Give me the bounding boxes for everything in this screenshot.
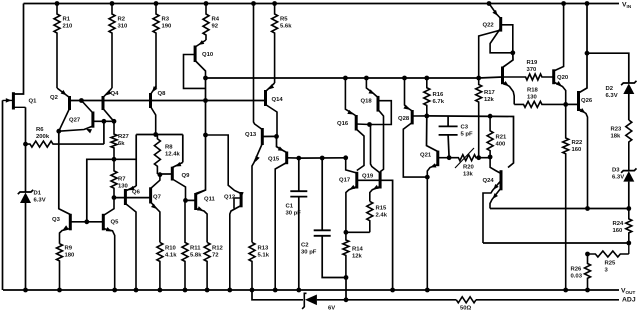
emitter arrow 2 Q24 xyxy=(493,193,498,199)
resistor 50 ohm value label xyxy=(460,306,472,312)
transistor Q27 xyxy=(59,101,93,134)
zener diode 6V on ADJ line xyxy=(302,293,335,311)
capacitor C1 30pF xyxy=(286,191,308,216)
wire VIN down to Q26 xyxy=(579,4,588,94)
resistor R21 xyxy=(487,116,507,157)
svg-text:R3: R3 xyxy=(162,17,170,23)
wire Q3 Q5 common base xyxy=(70,221,103,223)
svg-text:D3: D3 xyxy=(612,168,620,174)
resistor 50 ohm zigzag xyxy=(456,297,476,303)
wire Q17 Q19 base line xyxy=(357,180,393,290)
node Q28 emitter on bus xyxy=(402,76,407,81)
node Q22 emitter on VIN rail xyxy=(487,1,492,6)
node R4 top on VIN rail xyxy=(204,1,209,6)
wire D1 top lead xyxy=(25,144,27,192)
svg-text:13k: 13k xyxy=(463,171,474,177)
resistor R6 value label xyxy=(36,127,50,140)
resistor R18 zigzag xyxy=(514,101,566,107)
node Q4 collector / R27 top junction xyxy=(112,119,117,124)
svg-text:18k: 18k xyxy=(611,133,622,139)
resistor R9 xyxy=(57,244,76,290)
wire Q1 gate to bottom rail xyxy=(2,100,4,290)
svg-text:R18: R18 xyxy=(527,88,539,94)
node R9 bottom on rail xyxy=(57,288,62,293)
svg-text:130: 130 xyxy=(527,94,538,100)
wire down to ADJ line xyxy=(345,278,347,300)
svg-text:Q15: Q15 xyxy=(268,157,280,163)
wire Q11 base xyxy=(186,199,196,201)
transistor Q16 xyxy=(337,78,370,171)
transistor Q17 xyxy=(339,158,357,233)
wire Q24 upper emitter line xyxy=(483,242,629,244)
wire Q2 collector node down to Q3 xyxy=(59,131,71,214)
svg-text:Q4: Q4 xyxy=(111,91,120,97)
node D3 / R24 junction xyxy=(626,206,631,211)
wire top supply rail xyxy=(24,3,620,5)
node Q20 emitter / R18 / Q26 base junction xyxy=(563,102,568,107)
svg-text:C1: C1 xyxy=(286,204,294,210)
svg-text:ADJ: ADJ xyxy=(622,297,636,304)
node Q16 base / Q19 collector junction xyxy=(367,122,372,127)
svg-text:Q18: Q18 xyxy=(361,99,373,105)
node R6 top junction xyxy=(102,119,107,124)
svg-text:R22: R22 xyxy=(572,140,584,146)
svg-text:4.1k: 4.1k xyxy=(165,252,177,258)
wire box right to Q9 emitter xyxy=(182,135,184,163)
wire current mirror bus xyxy=(206,77,479,79)
resistor R5 xyxy=(272,4,293,84)
transistor Q5 xyxy=(103,198,119,290)
node Q17 emitter / R15 / R14 junction xyxy=(344,230,349,235)
emitter arrow 1 Q24 xyxy=(493,184,498,190)
svg-text:130: 130 xyxy=(118,183,129,189)
svg-text:Q12: Q12 xyxy=(224,195,236,201)
svg-text:D1: D1 xyxy=(34,191,42,197)
node R10 bottom on rail xyxy=(158,288,163,293)
wire R8 bottom to Q9 base xyxy=(157,173,172,175)
svg-text:R5: R5 xyxy=(280,17,288,23)
wire compensation node line xyxy=(299,157,346,159)
node R17 top on bus end xyxy=(476,76,481,81)
wire R6 right to Q4 collector node xyxy=(103,121,105,144)
svg-text:50Ω: 50Ω xyxy=(460,306,472,312)
node Q21 emitter on rail xyxy=(425,288,430,293)
wire Q13 base to node xyxy=(262,135,276,137)
wire D2 branch over and down xyxy=(587,53,629,83)
resistor R20 zigzag xyxy=(449,155,490,161)
svg-text:6k: 6k xyxy=(118,141,125,147)
svg-text:R13: R13 xyxy=(258,246,270,252)
transistor Q7 xyxy=(151,175,162,243)
node R25 left junction xyxy=(585,252,590,257)
svg-text:R17: R17 xyxy=(484,90,496,96)
wire Q10 collector column to Q11 xyxy=(196,78,206,194)
svg-text:Q26: Q26 xyxy=(581,98,593,104)
svg-text:12.4k: 12.4k xyxy=(165,151,180,157)
svg-text:R12: R12 xyxy=(212,246,224,252)
wire bottom output rail xyxy=(3,289,619,291)
svg-text:6V: 6V xyxy=(328,306,335,312)
svg-text:160: 160 xyxy=(613,228,624,234)
wire Q1 source down xyxy=(25,107,27,144)
svg-text:160: 160 xyxy=(572,147,583,153)
resistor R1 xyxy=(54,4,73,89)
node Q26 collector on VIN rail xyxy=(585,1,590,6)
transistor Q4 xyxy=(103,88,119,121)
svg-text:R9: R9 xyxy=(65,246,73,252)
wire common base rail of PNP row xyxy=(70,100,266,102)
node D1 anode on bottom rail xyxy=(23,288,28,293)
svg-text:190: 190 xyxy=(162,23,173,29)
node Q20 collector on VIN rail xyxy=(561,1,566,6)
node Q27 collector on base rail xyxy=(79,98,84,103)
svg-text:Q6: Q6 xyxy=(132,190,141,196)
resistor R6 zigzag xyxy=(26,141,104,147)
wire box left to Q6 emitter xyxy=(135,135,137,187)
resistor R10 xyxy=(157,242,177,290)
wire C2 top lead xyxy=(321,158,323,230)
wire ADJ line middle segment xyxy=(317,299,456,301)
resistor R24 xyxy=(613,209,632,244)
resistor R25 right riser xyxy=(605,243,629,273)
svg-text:Q27: Q27 xyxy=(69,118,81,124)
svg-text:2.4k: 2.4k xyxy=(376,212,388,218)
node C3 bottom / R20 left junction xyxy=(447,155,452,160)
node R27/R7 junction xyxy=(112,157,117,162)
svg-text:Q7: Q7 xyxy=(153,195,162,201)
svg-text:310: 310 xyxy=(118,23,129,29)
node R7 bottom / Q5 collector junction xyxy=(112,195,117,200)
svg-text:180: 180 xyxy=(65,252,76,258)
node Q7 collector junction xyxy=(158,172,163,177)
node Q15 base / C1 junction xyxy=(296,156,301,161)
svg-text:Q14: Q14 xyxy=(272,97,284,103)
node R21 bottom / R20 right junction xyxy=(488,155,493,160)
node Q18 emitter on bus xyxy=(364,76,369,81)
transistor Q10 xyxy=(184,40,214,88)
resistor R4 xyxy=(203,4,220,41)
zener diode D2 6.3V xyxy=(606,81,637,99)
wire R27 junction left to Q3 Q5 bases xyxy=(87,159,136,222)
node Q1 source / R6 / D1 junction xyxy=(23,142,28,147)
transistor Q23 xyxy=(503,67,515,105)
resistor R26 xyxy=(585,254,591,290)
svg-text:Q9: Q9 xyxy=(182,173,191,179)
wire R15 bottom to R14 node xyxy=(346,231,370,233)
node R16 top on bus xyxy=(424,76,429,81)
node R26 bottom on VOUT rail xyxy=(585,288,590,293)
transistor Q2 xyxy=(50,88,70,131)
svg-text:R11: R11 xyxy=(190,246,201,252)
svg-text:5.1k: 5.1k xyxy=(258,252,270,258)
node R2 top on VIN rail xyxy=(110,1,115,6)
resistor R13 xyxy=(249,242,270,290)
capacitor C2 30pF xyxy=(301,230,331,255)
node C2 / R14 junction xyxy=(344,275,349,280)
svg-text:6.3V: 6.3V xyxy=(606,93,618,99)
node Q14 collector / Q13 base / Q15 emitter junction xyxy=(274,134,279,139)
svg-text:R15: R15 xyxy=(376,206,388,212)
wire Q24 lower emitter line xyxy=(490,208,629,210)
svg-text:72: 72 xyxy=(212,252,219,258)
svg-text:6.3V: 6.3V xyxy=(34,197,46,203)
node C1 bottom on rail xyxy=(296,288,301,293)
resistor R22 xyxy=(563,104,583,290)
zener diode D1 6.3V xyxy=(18,190,46,204)
node Q8 collector on box top xyxy=(153,132,158,137)
transistor Q22 xyxy=(479,4,513,79)
node R3 top on VIN rail xyxy=(154,1,159,6)
transistor Q12 xyxy=(206,135,244,290)
resistor R2 xyxy=(109,4,128,89)
svg-text:210: 210 xyxy=(63,23,74,29)
capacitor C3 5pF xyxy=(439,125,473,138)
svg-text:R27: R27 xyxy=(118,134,130,140)
resistor R26 value label xyxy=(571,267,583,280)
node Q28 collector to Q21 emitter junction xyxy=(425,175,430,180)
node on ADJ line xyxy=(344,297,349,302)
svg-text:12k: 12k xyxy=(352,253,363,259)
svg-text:R19: R19 xyxy=(527,60,539,66)
node base sense on rail xyxy=(390,288,395,293)
node R16 bottom / Q28 base junction xyxy=(424,114,429,119)
node ADJ label xyxy=(622,297,636,304)
svg-text:R4: R4 xyxy=(212,17,220,23)
node R24 bottom junction xyxy=(626,241,631,246)
node Q6 collector on rail xyxy=(134,288,139,293)
node mirror to Q12 emitter junction xyxy=(203,133,208,138)
transistor Q18 xyxy=(361,78,392,172)
node Q2 collector / Q3 collector junction xyxy=(56,129,61,134)
resistor R8 xyxy=(154,135,180,175)
node VIN label xyxy=(622,2,632,10)
svg-text:R1: R1 xyxy=(63,17,71,23)
svg-text:R6: R6 xyxy=(36,127,44,133)
wire Q27 base to R27 node xyxy=(93,120,114,122)
wire ADJ line right segment xyxy=(476,299,619,301)
transistor Q15 xyxy=(268,152,299,291)
transistor Q21 xyxy=(420,151,449,290)
resistor R19 zigzag xyxy=(503,74,554,80)
resistor R16 xyxy=(424,78,445,116)
wire C1 top lead xyxy=(298,158,300,191)
node Q3 Q5 base junction xyxy=(84,219,89,224)
node Q22 collector-base tie junction xyxy=(510,50,515,55)
svg-text:Q13: Q13 xyxy=(245,132,257,138)
wire C2 bottom lead xyxy=(322,236,346,278)
transistor Q20 xyxy=(554,4,569,105)
svg-text:R24: R24 xyxy=(613,221,625,227)
wire C1 bottom lead xyxy=(298,197,300,290)
node R1 top on VIN rail xyxy=(55,1,60,6)
svg-text:R23: R23 xyxy=(611,127,623,133)
resistor R7 xyxy=(111,159,129,197)
wire VIN to Q1 drain xyxy=(13,4,23,95)
transistor Q1 xyxy=(3,92,38,109)
wire node to C3 and Q24 collector xyxy=(427,116,514,168)
transistor Q26 xyxy=(579,91,593,209)
svg-text:92: 92 xyxy=(212,23,219,29)
transistor Q8 xyxy=(151,86,167,135)
svg-text:Q19: Q19 xyxy=(362,174,374,180)
resistor R25 zigzag xyxy=(588,251,629,257)
node R13 bottom on rail xyxy=(250,288,255,293)
svg-text:D2: D2 xyxy=(606,86,614,92)
node C2 top junction xyxy=(320,156,325,161)
wire tie down to Q23 collector xyxy=(503,53,514,68)
transistor Q13 xyxy=(245,4,262,243)
zener diode D3 6.3V xyxy=(612,168,637,182)
svg-text:6.3V: 6.3V xyxy=(612,174,624,180)
svg-text:C2: C2 xyxy=(301,243,309,249)
svg-text:Q20: Q20 xyxy=(557,75,569,81)
svg-text:Q5: Q5 xyxy=(111,220,120,226)
svg-text:R20: R20 xyxy=(463,165,475,171)
node Q5 emitter on rail xyxy=(112,288,117,293)
svg-text:R25: R25 xyxy=(605,261,617,267)
resistor R11 xyxy=(182,200,202,290)
node Q12 collector on rail xyxy=(227,288,232,293)
wire Q21 base from node xyxy=(427,116,438,152)
resistor R23 xyxy=(611,120,632,171)
svg-text:Q17: Q17 xyxy=(339,178,351,184)
node Q17 collector junction xyxy=(343,155,348,160)
svg-text:12k: 12k xyxy=(484,97,495,103)
resistor R27 xyxy=(111,121,130,159)
svg-text:R8: R8 xyxy=(165,145,173,151)
node R5 top on VIN rail xyxy=(272,1,277,6)
resistor R17 xyxy=(476,78,496,158)
svg-text:R14: R14 xyxy=(352,247,364,253)
svg-text:Q11: Q11 xyxy=(204,197,216,203)
node R11 bottom on rail xyxy=(183,288,188,293)
wire D1 to bottom rail xyxy=(25,203,27,290)
svg-text:Q22: Q22 xyxy=(483,23,495,29)
resistor R19 value label xyxy=(527,60,539,73)
svg-text:200k: 200k xyxy=(36,134,50,140)
svg-text:Q1: Q1 xyxy=(29,99,38,105)
node R21 top junction xyxy=(488,114,493,119)
node R12 bottom on rail xyxy=(205,288,210,293)
wire C3 bottom lead xyxy=(448,135,449,158)
svg-text:0.03: 0.03 xyxy=(571,273,583,279)
resistor R18 value label xyxy=(527,88,539,101)
node Q13 collector on VIN rail xyxy=(251,1,256,6)
svg-text:Q10: Q10 xyxy=(202,52,214,58)
svg-text:R10: R10 xyxy=(165,246,177,252)
transistor Q6 xyxy=(125,186,140,290)
svg-text:Q21: Q21 xyxy=(420,153,432,159)
resistor R20 trim slash xyxy=(455,148,475,177)
svg-text:R16: R16 xyxy=(433,92,445,98)
svg-text:Q3: Q3 xyxy=(52,217,61,223)
node D2 branch junction xyxy=(585,51,590,56)
emitter arrow Q15 xyxy=(278,146,284,151)
wire Q6 Q7 base line xyxy=(114,197,151,199)
node Q9 collector / Q11 base / R11 junction xyxy=(183,198,188,203)
transistor Q9 xyxy=(172,162,190,200)
svg-text:5.8k: 5.8k xyxy=(190,252,202,258)
node VOUT label xyxy=(621,288,635,296)
wire node down to Q15 emitter xyxy=(277,136,287,152)
svg-text:Q2: Q2 xyxy=(50,95,59,101)
svg-text:30 pF: 30 pF xyxy=(301,249,317,255)
transistor Q14 xyxy=(266,83,284,136)
svg-text:370: 370 xyxy=(527,67,538,73)
svg-text:Q8: Q8 xyxy=(158,91,167,97)
svg-text:Q24: Q24 xyxy=(483,178,495,184)
svg-text:R21: R21 xyxy=(496,135,508,141)
transistor Q28 xyxy=(398,78,427,177)
node R22 bottom on rail xyxy=(563,288,568,293)
svg-text:5.6k: 5.6k xyxy=(280,23,292,29)
svg-text:Q28: Q28 xyxy=(398,116,410,122)
resistor R15 xyxy=(367,201,388,232)
node R17 bottom junction xyxy=(476,155,481,160)
svg-text:6.7k: 6.7k xyxy=(433,99,445,105)
wire R8 box top xyxy=(136,134,183,136)
wire D2 to R23 xyxy=(628,94,630,120)
wire Q26 base lead xyxy=(566,103,579,105)
wire D3 to R24 node xyxy=(628,182,630,209)
transistor Q19 xyxy=(362,125,380,202)
wire ADJ line left segment xyxy=(252,290,303,300)
svg-text:5 pF: 5 pF xyxy=(461,131,474,137)
node Q26 emitter junction xyxy=(585,206,590,211)
svg-text:400: 400 xyxy=(496,141,507,147)
svg-text:R7: R7 xyxy=(118,177,126,183)
wire C3 top lead xyxy=(447,116,449,126)
transistor Q24 xyxy=(483,157,502,243)
node Q16 emitter on bus xyxy=(343,76,348,81)
resistor R3 xyxy=(153,4,172,89)
transistor Q3 xyxy=(52,214,70,244)
svg-text:Q16: Q16 xyxy=(337,121,349,127)
svg-text:R2: R2 xyxy=(118,17,126,23)
svg-text:R26: R26 xyxy=(571,267,583,273)
node mirror line on base rail xyxy=(203,98,208,103)
resistor R12 xyxy=(204,242,223,290)
node bus left end Q10 collector xyxy=(203,76,208,81)
resistor R14 xyxy=(343,232,364,277)
wire bus into Q23 base xyxy=(479,77,503,78)
transistor Q11 xyxy=(196,190,216,242)
svg-text:C3: C3 xyxy=(461,125,469,131)
node Q15 collector on rail xyxy=(273,288,278,293)
